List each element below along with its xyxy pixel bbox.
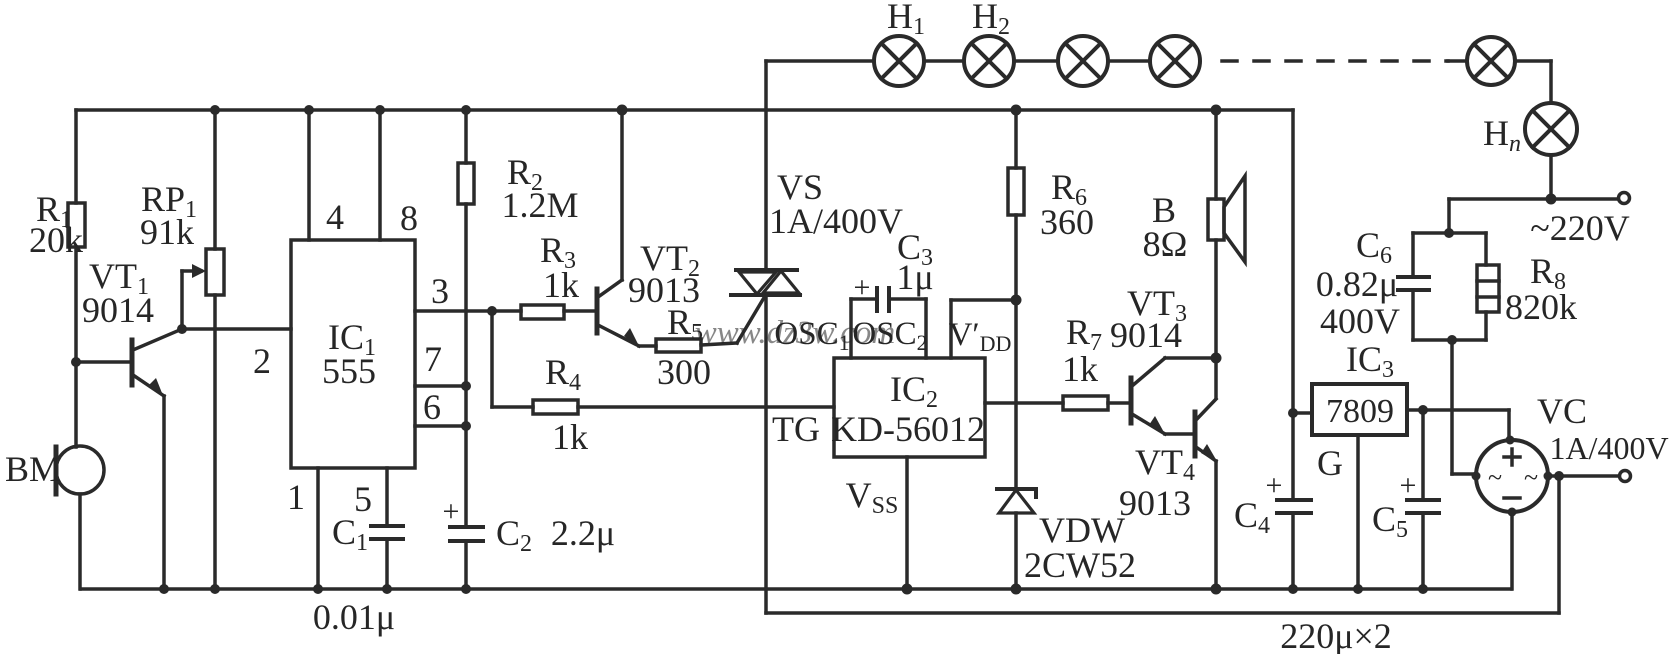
- wire: [1108, 59, 1150, 63]
- wire: [1014, 59, 1058, 63]
- svg-text:1k: 1k: [552, 417, 588, 457]
- svg-text:KD-56012: KD-56012: [831, 409, 985, 449]
- svg-text:1k: 1k: [1062, 349, 1098, 389]
- wire down to C6R8: [1447, 199, 1451, 233]
- wire to bridge plus: [1507, 410, 1511, 440]
- svg-text:9014: 9014: [82, 290, 154, 330]
- IC3 7809 box: [1312, 384, 1407, 435]
- wire to Hn: [1515, 61, 1551, 103]
- wire bus to IC3 input: [1291, 110, 1295, 500]
- resistor R4: [492, 311, 834, 414]
- node C2 on bus: [461, 584, 471, 594]
- svg-text:8Ω: 8Ω: [1143, 224, 1188, 264]
- wire IC3 output: [1407, 408, 1509, 412]
- svg-text:+: +: [854, 271, 871, 304]
- node VSS on bus: [902, 584, 913, 595]
- lamp 4: [1150, 36, 1200, 86]
- lamp 3: [1058, 36, 1108, 86]
- node lower rail junction: [1554, 471, 1564, 481]
- svg-text:7: 7: [424, 339, 442, 379]
- node C6R8 top: [1444, 228, 1454, 238]
- node pin1 on bus: [313, 584, 323, 594]
- resistor R3: [521, 305, 595, 319]
- node RP1 on bus: [210, 584, 220, 594]
- node pin4 on bus: [304, 105, 314, 115]
- wire Hn to 220V line: [1549, 155, 1553, 199]
- svg-text:220μ×2: 220μ×2: [1280, 616, 1392, 654]
- potentiometer RP1: [182, 110, 224, 589]
- svg-text:555: 555: [322, 351, 376, 391]
- terminal ~220V lower: [1620, 471, 1631, 482]
- svg-text:R4: R4: [545, 352, 581, 396]
- node C5 on bus: [1418, 584, 1428, 594]
- svg-text:2: 2: [253, 341, 271, 381]
- svg-text:H2: H2: [972, 0, 1010, 40]
- wire pin 4: [307, 110, 311, 240]
- svg-text:IC2: IC2: [890, 369, 938, 413]
- capacitor C4: [1277, 500, 1311, 589]
- node C5 tap: [1418, 405, 1428, 415]
- wire pin 8: [378, 110, 382, 240]
- pin OSC1 stub: [849, 299, 853, 358]
- capacitor C5: [1407, 410, 1439, 589]
- node speaker on bus: [1211, 105, 1222, 116]
- wire G pin: [1356, 435, 1360, 589]
- svg-text:2.2μ: 2.2μ: [551, 513, 615, 553]
- svg-text:8: 8: [400, 198, 418, 238]
- wire lower rail: [766, 476, 1559, 613]
- node pin8 on bus: [375, 105, 385, 115]
- svg-text:C6: C6: [1356, 225, 1392, 269]
- wire to bridge ac left: [1452, 340, 1476, 474]
- svg-text:VSS: VSS: [846, 475, 899, 519]
- svg-text:VC: VC: [1537, 391, 1587, 431]
- svg-text:3: 3: [431, 271, 449, 311]
- svg-text:91k: 91k: [140, 212, 194, 252]
- wire pin 1: [316, 468, 320, 589]
- microphone BM: [56, 446, 104, 589]
- wire ~220V line: [1449, 197, 1618, 201]
- svg-text:9013: 9013: [1119, 483, 1191, 523]
- svg-text:~: ~: [1524, 463, 1538, 492]
- capacitor C1: [371, 526, 403, 589]
- svg-text:7809: 7809: [1326, 393, 1394, 430]
- svg-text:360: 360: [1040, 202, 1094, 242]
- node G on bus: [1353, 584, 1363, 594]
- wire pin 3: [415, 309, 521, 313]
- wire pin 6: [415, 424, 466, 428]
- svg-text:BM: BM: [5, 449, 61, 489]
- node C6R8 bottom: [1447, 335, 1457, 345]
- node VT4 emitter on bus: [1211, 584, 1222, 595]
- zener diode VDW: [997, 489, 1036, 589]
- wire pin 2: [182, 327, 291, 331]
- transistor VT4: [1195, 399, 1218, 589]
- svg-text:H1: H1: [887, 0, 925, 40]
- wire pin 7: [415, 384, 466, 388]
- wire lamp string line: [766, 59, 874, 63]
- svg-text:1A/400V: 1A/400V: [769, 201, 903, 241]
- svg-text:VDW: VDW: [1039, 510, 1125, 550]
- wire: [924, 59, 964, 63]
- terminal ~220V upper: [1619, 193, 1630, 204]
- svg-text:1.2M: 1.2M: [501, 185, 578, 225]
- svg-text:1k: 1k: [543, 265, 579, 305]
- node R2 on bus: [461, 105, 471, 115]
- resistor R6: [1008, 110, 1024, 487]
- capacitor C2: [450, 527, 483, 589]
- op-amp IC1 555 box: [291, 240, 415, 468]
- node VT1 emitter on bus: [159, 584, 169, 594]
- svg-text:+: +: [443, 495, 460, 528]
- svg-text:+: +: [1400, 469, 1417, 502]
- wire pin 5: [385, 468, 389, 526]
- svg-text:V′DD: V′DD: [949, 317, 1012, 356]
- node VT1 collector / wiper / pin2: [177, 324, 187, 334]
- svg-text:0.01μ: 0.01μ: [313, 597, 395, 637]
- svg-text:www.dz3w.com: www.dz3w.com: [695, 315, 895, 351]
- pin OSC2 stub: [924, 299, 928, 358]
- lamp H1: [874, 36, 924, 86]
- node C1 on bus: [382, 584, 392, 594]
- wire bottom ground bus: [81, 587, 1511, 591]
- node R6 on bus: [1011, 105, 1022, 116]
- svg-text:1μ: 1μ: [896, 257, 933, 297]
- svg-text:C2: C2: [496, 513, 532, 557]
- svg-text:0.82μ: 0.82μ: [1316, 264, 1398, 304]
- IC2 KD-56012 box: [834, 358, 985, 457]
- node pin7-R2: [461, 381, 471, 391]
- node RP1 on bus: [210, 105, 220, 115]
- capacitor C6 / resistor R8 parallel block: [1398, 233, 1499, 340]
- node pin6-R2: [461, 421, 471, 431]
- svg-text:~: ~: [1488, 463, 1502, 492]
- node VDW on bus: [1011, 584, 1022, 595]
- svg-text:2CW52: 2CW52: [1024, 545, 1136, 585]
- node IC3 input: [1288, 408, 1298, 418]
- svg-text:5: 5: [354, 479, 372, 519]
- transistor VT2: [597, 110, 640, 348]
- svg-text:820k: 820k: [1505, 287, 1577, 327]
- triac VS: [731, 61, 800, 613]
- node base of VT1: [71, 357, 81, 367]
- node pin3 branch: [487, 306, 497, 316]
- transistor VT1: [76, 329, 182, 589]
- svg-text:1A/400V: 1A/400V: [1549, 430, 1668, 466]
- svg-text:300: 300: [657, 352, 711, 392]
- node VT2 collector on bus: [617, 105, 628, 116]
- wire IC2 output: [985, 401, 1063, 405]
- wire dashed continuation: [1222, 59, 1448, 63]
- resistor R7: [1063, 396, 1129, 410]
- lamp H2: [964, 36, 1014, 86]
- wire: [1448, 59, 1467, 63]
- node VT3 collector: [1211, 353, 1222, 364]
- svg-text:Hn: Hn: [1483, 113, 1521, 157]
- pin VSS wire: [905, 457, 909, 589]
- wire bridge ac right to terminal: [1548, 474, 1618, 478]
- svg-text:+: +: [1266, 469, 1283, 502]
- svg-text:TG: TG: [772, 409, 820, 449]
- wire: [1293, 411, 1312, 415]
- node Hn junction: [1546, 194, 1557, 205]
- resistor R5: [639, 339, 737, 352]
- svg-text:VT4: VT4: [1135, 442, 1195, 486]
- svg-text:4: 4: [326, 197, 344, 237]
- svg-text:400V: 400V: [1320, 301, 1400, 341]
- capacitor C3: [851, 288, 926, 311]
- lamp Hn: [1525, 103, 1577, 155]
- node V'DD on R6 line: [1011, 295, 1022, 306]
- svg-text:20k: 20k: [29, 220, 83, 260]
- bridge rectifier VC: [1472, 436, 1553, 590]
- resistor R2: [458, 110, 474, 527]
- transistor VT3: [1131, 358, 1216, 436]
- resistor R1: [68, 110, 85, 447]
- svg-text:IC3: IC3: [1346, 339, 1394, 383]
- svg-text:6: 6: [423, 387, 441, 427]
- svg-text:G: G: [1317, 443, 1343, 483]
- svg-text:1: 1: [287, 477, 305, 517]
- speaker B: [1208, 110, 1245, 398]
- wire top supply bus: [76, 108, 1293, 112]
- svg-text:C5: C5: [1372, 499, 1408, 543]
- pin V'DD stub: [951, 300, 1016, 358]
- svg-text:~220V: ~220V: [1530, 208, 1629, 248]
- node C4 on bus: [1288, 584, 1298, 594]
- svg-text:9014: 9014: [1110, 315, 1182, 355]
- lamp 5: [1467, 37, 1515, 85]
